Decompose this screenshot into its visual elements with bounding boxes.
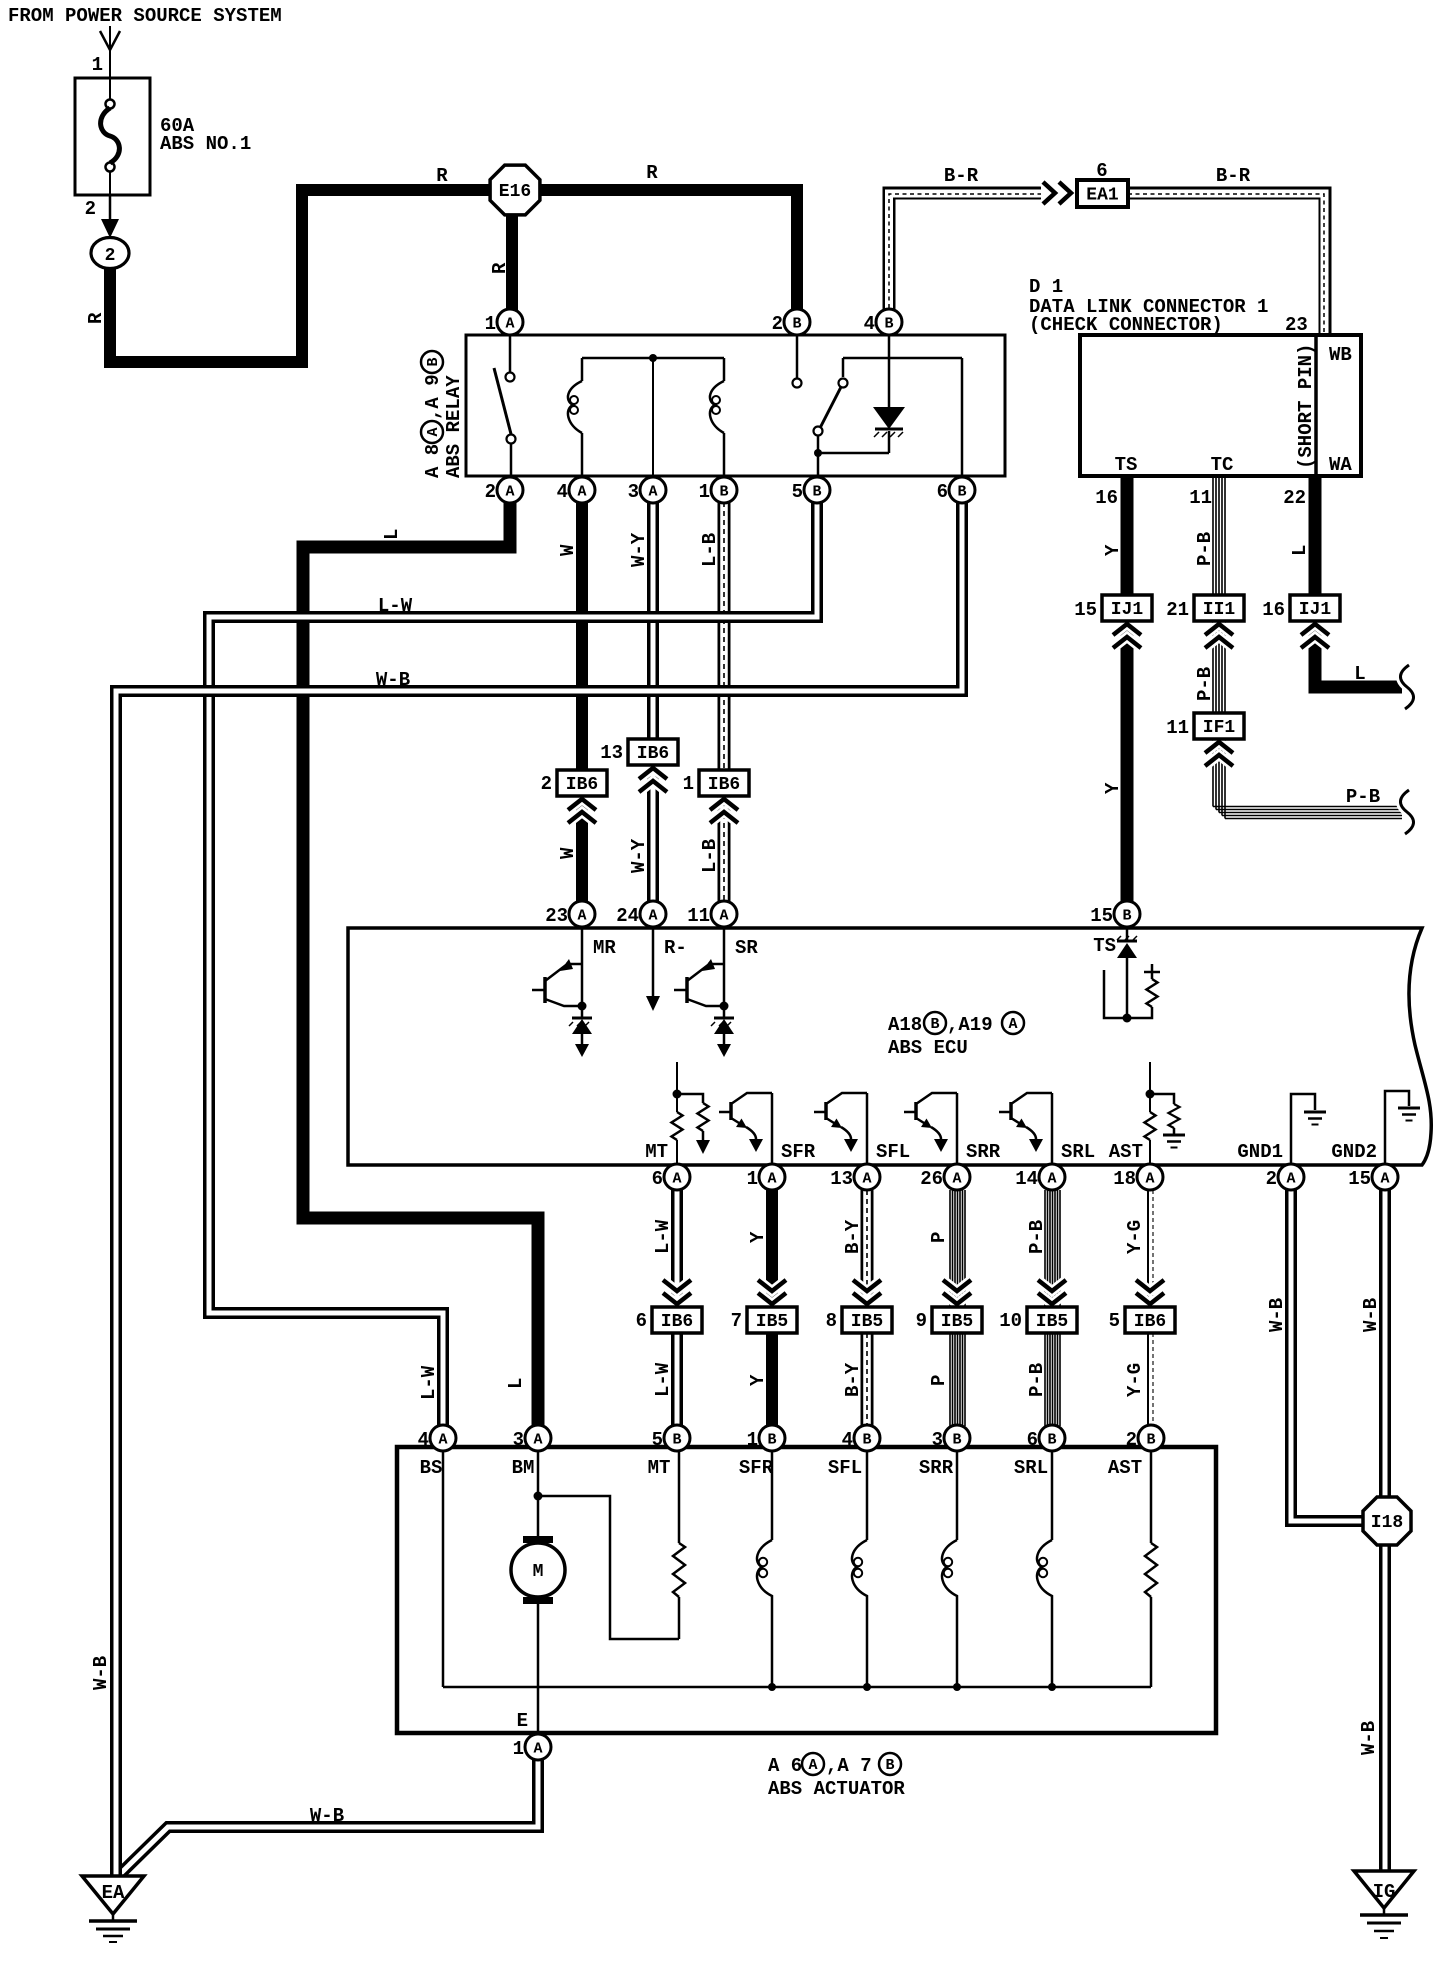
svg-text:1: 1 [683,773,694,795]
pin 5B relay bottom [804,477,830,503]
connector 2 IB6 [568,799,596,823]
svg-text:W-Y: W-Y [628,838,650,873]
pin 13A ECU bottom [854,1164,880,1190]
svg-text:11: 11 [687,905,710,927]
svg-text:2: 2 [85,198,96,220]
pin 6B relay bottom [949,477,975,503]
relay wire to 3A [652,358,654,490]
svg-text:B-Y: B-Y [842,1362,864,1397]
svg-text:,A19: ,A19 [947,1014,993,1036]
svg-text:W-B: W-B [1358,1721,1380,1755]
svg-text:A: A [1008,1016,1017,1033]
wire Y-G thin: ECU 18A to IB6 to actuator 2B [1148,1190,1153,1426]
svg-text:11: 11 [1166,717,1189,739]
svg-text:IB6: IB6 [566,775,598,795]
svg-text:SRR: SRR [966,1141,1001,1163]
pin 2B relay top [784,309,810,335]
svg-text:WA: WA [1329,454,1352,476]
wire L-W hollow: relay 5B to actuator 4A [209,502,817,1426]
wire fuse pin2 with solid arrow [109,195,112,222]
svg-text:M: M [533,1562,544,1582]
svg-text:W: W [557,847,579,859]
svg-text:L-W: L-W [418,1365,440,1400]
D1 short pin divider [1314,335,1318,476]
ECU name A18 A19 ABS ECU [888,1012,1024,1036]
svg-text:TS: TS [1115,454,1138,476]
svg-text:6: 6 [636,1310,647,1332]
svg-text:B: B [930,1016,939,1033]
svg-text:IB6: IB6 [708,775,740,795]
actuator AST resistor [1150,1451,1153,1687]
pin 6A ECU bottom [664,1164,690,1190]
svg-text:4: 4 [864,313,875,335]
svg-text:4: 4 [557,481,568,503]
relay contact from 2B [796,335,799,378]
svg-text:2: 2 [485,481,496,503]
relay name A8 A9 ABS RELAY [421,351,444,478]
wire P striped: ECU 26A to IB5 to actuator 3B [950,1190,965,1426]
pin 18A ECU bottom [1137,1164,1163,1190]
svg-text:16: 16 [1262,599,1285,621]
svg-text:2: 2 [105,246,116,266]
svg-text:1: 1 [92,54,103,76]
relay switch blade 5B [842,358,845,377]
svg-text:R: R [436,165,448,187]
svg-text:B-Y: B-Y [842,1219,864,1254]
relay coil 1B [723,358,726,490]
svg-text:L-W: L-W [652,1219,674,1254]
relay diode from 4B [888,335,891,453]
svg-text:6: 6 [1096,160,1107,182]
relay wire top to 6B [843,358,962,490]
connector 6 IB6 lower [663,1280,691,1304]
svg-text:IB5: IB5 [851,1312,883,1332]
pin 3A actuator [525,1425,551,1451]
connector 15 IJ1 [1113,624,1141,648]
connector 9 IB5 [943,1280,971,1304]
svg-text:10: 10 [999,1310,1022,1332]
svg-text:21: 21 [1166,599,1189,621]
svg-text:IB5: IB5 [1036,1312,1068,1332]
wire R thick: fuse to E16 to relay [110,190,500,362]
svg-text:ABS NO.1: ABS NO.1 [160,133,251,155]
actuator MT resistor [678,1451,681,1639]
relay A8,A9 ABS RELAY box [466,335,1005,476]
svg-text:A 8: A 8 [422,444,444,478]
actuator bus bar [443,1686,1151,1689]
svg-text:4: 4 [418,1429,429,1451]
wire W-B hollow: ECU GND2 15A to I18 to IG ground [1379,1190,1391,1878]
actuator BM wire and branch [537,1451,540,1537]
svg-text:E: E [517,1710,528,1732]
pin 26A ECU bottom [944,1164,970,1190]
svg-text:TC: TC [1211,454,1234,476]
svg-text:23: 23 [1285,314,1308,336]
connector 7 IB5 [758,1280,786,1304]
pin 4B actuator [854,1425,880,1451]
svg-text:14: 14 [1015,1168,1038,1190]
svg-text:FROM POWER SOURCE SYSTEM: FROM POWER SOURCE SYSTEM [8,5,282,27]
ground triangle IG [1354,1871,1414,1908]
svg-text:L-W: L-W [652,1362,674,1397]
pin 3B actuator [944,1425,970,1451]
svg-text:11: 11 [1189,487,1212,509]
svg-text:7: 7 [731,1310,742,1332]
actuator SRL coil [1051,1451,1054,1687]
ECU GND1 internal ground [1291,1094,1315,1164]
svg-text:A 6: A 6 [768,1755,802,1777]
actuator SRR coil [956,1451,959,1687]
svg-text:6: 6 [937,481,948,503]
svg-text:13: 13 [830,1168,853,1190]
pin 5B actuator [664,1425,690,1451]
wire R thick: E16 down to relay pin 1A [506,205,518,310]
svg-text:WB: WB [1329,344,1352,366]
svg-text:GND1: GND1 [1237,1141,1283,1163]
svg-text:L: L [1354,663,1365,685]
svg-text:23: 23 [545,905,568,927]
ECU transistor SFR [771,1093,774,1164]
pin 1A actuator E [525,1734,551,1760]
svg-text:IG: IG [1373,1881,1396,1903]
svg-text:8: 8 [826,1310,837,1332]
connector 8 IB5 [853,1280,881,1304]
svg-text:MT: MT [645,1141,668,1163]
pin 15B ECU top [1114,901,1140,927]
wire L-W hollow: ECU 6A to IB6 to actuator 5B [671,1190,683,1426]
svg-text:P-B: P-B [1194,667,1216,701]
svg-text:P-B: P-B [1026,1220,1048,1254]
svg-text:,A 7: ,A 7 [826,1755,872,1777]
wire B-Y 3line: ECU 13A to IB5 to actuator 4B [861,1190,874,1426]
junction connector I18 octagon [1363,1497,1411,1545]
svg-text:B: B [885,1757,894,1774]
svg-text:,A 9: ,A 9 [422,374,444,420]
svg-text:Y: Y [1102,544,1124,556]
pin 2B actuator [1138,1425,1164,1451]
ECU AST resistors and ground [1149,1062,1151,1164]
connector 11 IF1 [1205,742,1233,766]
svg-text:15: 15 [1074,599,1097,621]
pin 1A ECU bottom [759,1164,785,1190]
connector EA1 box [1077,180,1128,207]
svg-text:P: P [928,1232,950,1243]
svg-text:5: 5 [652,1429,663,1451]
pin 1A relay top [497,309,523,335]
ECU MT resistors [676,1062,678,1164]
svg-text:IJ1: IJ1 [1111,600,1144,620]
svg-text:IB6: IB6 [1134,1312,1166,1332]
pin 1B actuator [759,1425,785,1451]
svg-text:ABS ECU: ABS ECU [888,1037,968,1059]
svg-text:R: R [646,162,658,184]
pin 1B relay bottom [711,477,737,503]
svg-text:A18: A18 [888,1014,922,1036]
svg-text:3: 3 [628,481,639,503]
svg-text:MT: MT [648,1457,671,1479]
svg-text:16: 16 [1095,487,1118,509]
svg-text:1: 1 [513,1738,524,1760]
svg-text:18: 18 [1113,1168,1136,1190]
svg-text:R-: R- [664,937,687,959]
svg-text:Y: Y [1102,782,1124,794]
svg-text:L: L [1289,545,1311,556]
ECU transistor MR [581,928,584,1006]
svg-text:(SHORT PIN): (SHORT PIN) [1295,344,1317,469]
fuse 60A ABS NO.1 box [75,78,150,195]
svg-text:22: 22 [1283,487,1306,509]
actuator SFR coil [771,1451,774,1687]
svg-text:B-R: B-R [1216,165,1251,187]
svg-text:SFR: SFR [739,1457,774,1479]
wire R thick: E16 to relay pin 2B [530,190,797,310]
svg-text:AST: AST [1108,1457,1142,1479]
svg-text:SFR: SFR [781,1141,816,1163]
svg-text:I18: I18 [1371,1513,1403,1533]
svg-text:ABS ACTUATOR: ABS ACTUATOR [768,1778,905,1800]
svg-text:1: 1 [699,481,710,503]
svg-text:SFL: SFL [828,1457,862,1479]
svg-text:GND2: GND2 [1331,1141,1377,1163]
svg-text:D 1: D 1 [1029,276,1063,298]
svg-text:1: 1 [747,1429,758,1451]
svg-text:Y: Y [747,1231,769,1243]
svg-text:EA1: EA1 [1086,186,1119,206]
svg-text:5: 5 [792,481,803,503]
connector 5 IB6 lower [1136,1280,1164,1304]
actuator SFL coil [866,1451,869,1687]
wire P-B striped: ECU 14A to IB5 to actuator 6B [1045,1190,1060,1426]
pin 2A ECU GND1 [1278,1164,1304,1190]
svg-text:L: L [505,1378,527,1389]
svg-text:26: 26 [920,1168,943,1190]
wires layer [110,190,1402,1880]
svg-text:4: 4 [842,1429,853,1451]
svg-text:3: 3 [513,1429,524,1451]
ECU box with torn right edge [348,928,1431,1165]
relay junction bar [582,357,724,360]
boxes layer [75,78,1431,1733]
svg-text:EA: EA [102,1882,125,1904]
wire W thick: relay 4A to IB6 to ECU 23A [576,502,588,902]
svg-text:SRL: SRL [1014,1457,1048,1479]
svg-text:B-R: B-R [944,165,979,187]
pins layer [418,309,1398,1760]
wire B-R 3line: relay 4B to EA1 [889,193,1041,310]
svg-text:P-B: P-B [1026,1363,1048,1397]
svg-text:W-B: W-B [310,1805,344,1827]
relay coil 4A [581,358,584,490]
wire from power source with open arrow [109,26,111,195]
svg-text:L-B: L-B [699,533,721,567]
svg-text:9: 9 [916,1310,927,1332]
svg-text:1: 1 [747,1168,758,1190]
svg-text:L-W: L-W [378,595,413,617]
connector 16 IJ1 [1301,624,1329,648]
actuator BS wire [442,1451,445,1687]
chevron arrows to EA1 [1043,182,1071,204]
pin 2A relay bottom [497,477,523,503]
svg-text:BS: BS [420,1457,443,1479]
wire L thick: D1 WA-22 to IJ1 to break [1315,474,1402,687]
svg-text:W-Y: W-Y [628,532,650,567]
connector 21 II1 [1205,624,1233,648]
svg-text:2: 2 [1266,1168,1277,1190]
pin 4A relay bottom [569,477,595,503]
svg-text:AST: AST [1109,1141,1143,1163]
break symbol L wire [1400,665,1413,709]
ECU transistor SR [723,928,726,1006]
fuse element 60A [106,100,115,109]
pin 4A actuator [430,1425,456,1451]
wire W-B hollow: relay 6B to EA ground [116,502,962,1880]
svg-text:(CHECK CONNECTOR): (CHECK CONNECTOR) [1029,314,1223,336]
svg-text:R: R [489,262,511,274]
svg-text:W-B: W-B [90,1656,112,1690]
pin 4B relay top [876,309,902,335]
svg-text:SRR: SRR [919,1457,954,1479]
ECU output R- arrow [652,928,655,998]
svg-text:W-B: W-B [1266,1298,1288,1332]
wire L thick: relay 2A to actuator 3A [303,502,538,1426]
svg-text:IJ1: IJ1 [1299,600,1332,620]
svg-text:R: R [85,312,107,324]
svg-text:L: L [381,529,403,540]
svg-text:A: A [425,427,442,436]
svg-text:1: 1 [485,313,496,335]
svg-text:2: 2 [1126,1429,1137,1451]
svg-text:IB5: IB5 [756,1312,788,1332]
pin 3A relay bottom [640,477,666,503]
svg-text:P-B: P-B [1346,786,1380,808]
wire Y thick: ECU 1A to IB5 to actuator 1B [766,1190,778,1426]
actuator name A6 A7 ABS ACTUATOR [768,1753,901,1777]
svg-text:L-B: L-B [699,839,721,873]
svg-text:3: 3 [932,1429,943,1451]
svg-text:6: 6 [1027,1429,1038,1451]
svg-text:IB6: IB6 [661,1312,693,1332]
svg-text:15: 15 [1090,905,1113,927]
ECU transistor SFL [866,1093,869,1164]
svg-text:Y-G: Y-G [1124,1220,1146,1254]
actuator box [397,1447,1216,1733]
svg-text:13: 13 [600,742,623,764]
svg-text:BM: BM [512,1457,535,1479]
svg-text:Y-G: Y-G [1124,1363,1146,1397]
relay switch contact 1A-2A [509,335,512,372]
svg-text:Y: Y [747,1374,769,1386]
ECU TS diode and resistor [1126,928,1129,1018]
wire W-B hollow: actuator E 1A to EA ground [118,1760,538,1876]
wire W-B hollow: ECU GND1 2A to I18 [1291,1190,1375,1521]
svg-text:W: W [557,544,579,556]
svg-text:24: 24 [616,905,639,927]
wire Y thick: D1 TS-16 to IJ1 to ECU 15B [1121,474,1134,902]
ECU GND2 internal ground [1385,1091,1409,1164]
connector 10 IB5 [1038,1280,1066,1304]
svg-text:2: 2 [541,773,552,795]
ECU transistor SRL [1051,1093,1054,1164]
pin 11A ECU top [711,901,737,927]
ECU transistor SRR [956,1093,959,1164]
svg-text:SFL: SFL [876,1141,910,1163]
svg-text:P-B: P-B [1194,532,1216,566]
wire P-B striped: D1 TC-11 to II1 to IF1 to break [1213,474,1402,819]
D1 data link connector box [1080,335,1361,476]
connector 1 IB6 [710,799,738,823]
pin 14A ECU bottom [1039,1164,1065,1190]
svg-text:SRL: SRL [1061,1141,1095,1163]
svg-text:MR: MR [593,937,616,959]
svg-text:P: P [928,1375,950,1386]
break symbol P-B wire [1400,790,1413,834]
svg-text:2: 2 [772,313,783,335]
pin 6B actuator [1039,1425,1065,1451]
svg-text:IF1: IF1 [1203,718,1236,738]
svg-text:A: A [808,1757,817,1774]
wire W-Y hollow: relay 3A to IB6 to ECU 24A [647,502,659,902]
svg-text:SR: SR [735,937,758,959]
svg-text:W-B: W-B [1360,1298,1382,1332]
pin 24A ECU top [640,901,666,927]
svg-text:II1: II1 [1203,600,1236,620]
svg-text:W-B: W-B [376,669,410,691]
svg-text:E16: E16 [499,182,531,202]
pin 15A ECU GND2 [1372,1164,1398,1190]
svg-text:B: B [425,357,442,366]
pin 23A ECU top [569,901,595,927]
svg-text:IB5: IB5 [941,1312,973,1332]
svg-text:ABS RELAY: ABS RELAY [443,375,465,478]
wire L-B 3line: relay 1B to IB6 to ECU 11A [718,502,731,902]
svg-text:TS: TS [1093,935,1116,957]
svg-text:6: 6 [652,1168,663,1190]
junction connector E16 octagon [490,165,540,215]
connector 13 IB6 [639,768,667,792]
svg-text:5: 5 [1109,1310,1120,1332]
wire B-R 3line: EA1 to D1 short pin [1128,193,1325,336]
svg-text:IB6: IB6 [637,744,669,764]
actuator motor M [511,1543,565,1597]
svg-text:15: 15 [1348,1168,1371,1190]
connector circle 2 [91,238,129,269]
ground triangle EA [82,1876,144,1914]
